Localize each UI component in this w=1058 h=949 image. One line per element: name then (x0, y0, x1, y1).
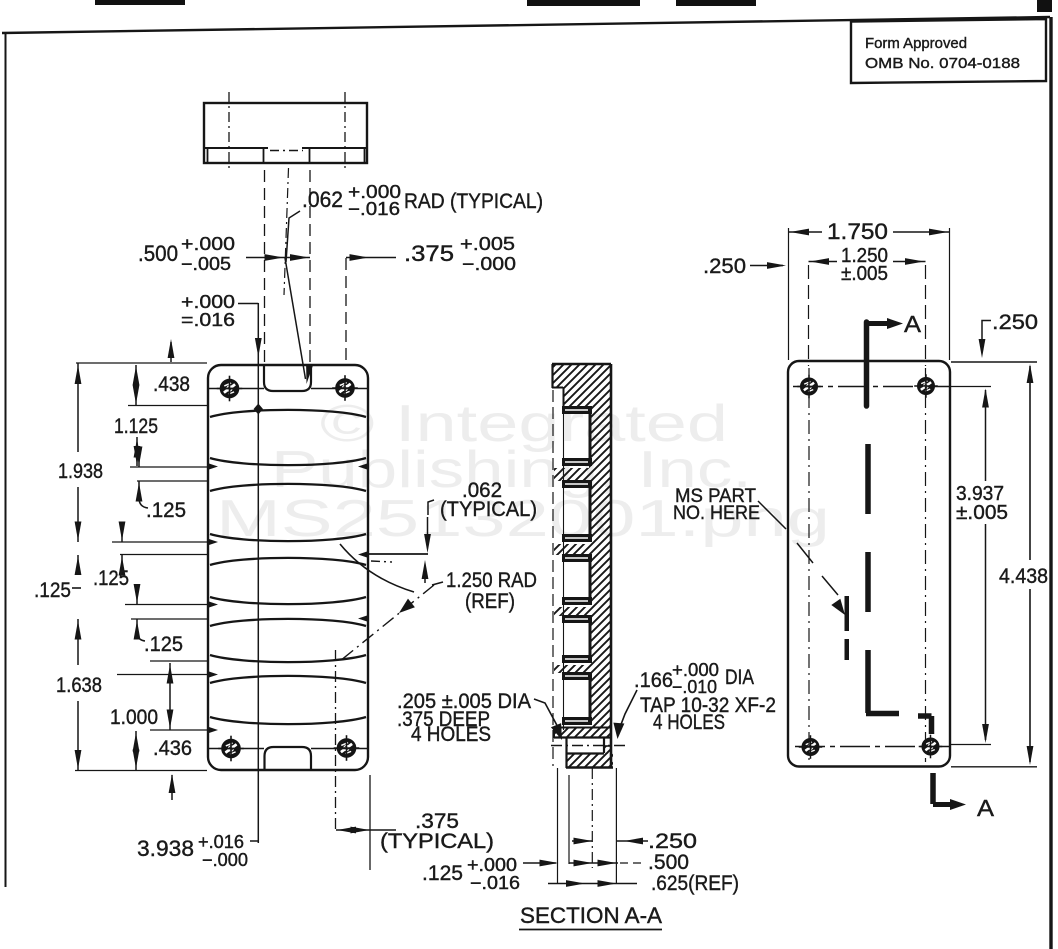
dim .500 line (246, 254, 310, 261)
front view screw bottom-left (218, 736, 244, 762)
dim 3.938 tie (250, 840, 258, 842)
stray up arrow left of view top (168, 339, 175, 362)
dim .166 tap note text (634, 660, 776, 734)
svg-text:RAD (TYPICAL): RAD (TYPICAL) (404, 190, 543, 213)
dim 1.750 (789, 219, 950, 360)
dim .500 bottom (569, 851, 689, 874)
svg-text:−.005: −.005 (181, 254, 231, 274)
section arrow A bottom (933, 773, 995, 821)
dim .062 RAD (TYPICAL) text (302, 182, 543, 219)
right view screw top-right (914, 374, 938, 398)
section foot outline (554, 727, 613, 768)
screw column line left (808, 368, 810, 760)
dim .250 left (703, 255, 786, 278)
left extension lines (75, 363, 209, 771)
dim .375 text (404, 234, 516, 274)
svg-text:1.250 RAD: 1.250 RAD (446, 569, 537, 592)
dim .625 REF bottom (548, 872, 739, 895)
dim .125 bottom text (422, 855, 520, 893)
center line extension below view (257, 770, 259, 843)
svg-text:.375: .375 (404, 241, 454, 266)
hole center extension dash-dot (591, 768, 593, 868)
svg-text:.250: .250 (648, 830, 697, 853)
leader .062 RAD to notch (285, 211, 313, 385)
svg-text:+.005: +.005 (460, 234, 515, 254)
leader 1.250 RAD (340, 582, 443, 661)
svg-text:.250: .250 (992, 311, 1038, 334)
dim 1.938 line (77, 363, 79, 542)
svg-text:.125: .125 (422, 862, 463, 885)
svg-text:Form Approved: Form Approved (865, 35, 967, 52)
section outline (552, 364, 611, 768)
dim 1.000 line (169, 663, 171, 730)
band pinch ticks left edge (209, 464, 218, 734)
leader MS part (758, 501, 850, 618)
dim .205 hole note text (397, 690, 531, 746)
svg-text:.125: .125 (93, 567, 129, 590)
svg-text:4 HOLES: 4 HOLES (411, 723, 491, 746)
dim .375 line (346, 254, 396, 261)
front view screw top-right (332, 375, 358, 401)
front view slot band 1 (210, 410, 366, 465)
below-section extension lines (558, 768, 617, 884)
dim tolerance +.000/=.016 text (181, 292, 235, 330)
svg-text:.500: .500 (138, 241, 178, 266)
section slot 5 (562, 672, 592, 725)
svg-text:.125: .125 (146, 499, 186, 522)
top view outline (204, 103, 367, 163)
short dash-dot right of view (371, 561, 392, 562)
dim .062 typical mid text (440, 479, 537, 521)
section slot 4 (562, 615, 592, 663)
svg-text:.250: .250 (703, 255, 746, 278)
svg-text:(TYPICAL): (TYPICAL) (380, 830, 494, 853)
svg-text:.125: .125 (34, 579, 71, 602)
front view screw bottom-right (334, 735, 360, 761)
right view screw bottom-left (799, 735, 823, 759)
screw row center line bottom (795, 746, 950, 748)
svg-text:A: A (977, 795, 995, 821)
extension dashed line notch right (309, 170, 311, 362)
dim .500 text (138, 234, 235, 274)
extension line right edge to bottom dim (369, 775, 371, 870)
top view center line right (344, 92, 346, 172)
MS part no mark (845, 596, 850, 660)
svg-text:+.016: +.016 (198, 832, 244, 852)
front view outline (208, 365, 368, 770)
svg-text:−.000: −.000 (462, 254, 516, 274)
svg-text:4 HOLES: 4 HOLES (653, 711, 725, 734)
MS PART NO. HERE text (673, 486, 760, 524)
dash-dot line through bottom-right screw column (335, 650, 337, 830)
svg-text:+.000: +.000 (467, 855, 517, 875)
dim 1.250 RAD (REF) text (446, 569, 537, 613)
dim 1.125 line (136, 437, 138, 466)
right view screw top-left (797, 375, 821, 399)
band pinch ticks right edge (358, 464, 367, 622)
svg-text:1.000: 1.000 (110, 706, 158, 729)
svg-text:1.125: 1.125 (114, 415, 158, 438)
dim .125 mid lines (121, 524, 123, 571)
front view bottom notch (265, 747, 312, 769)
svg-text:SECTION A-A: SECTION A-A (520, 903, 662, 928)
svg-text:=.016: =.016 (181, 310, 235, 330)
svg-text:+.000: +.000 (181, 292, 235, 312)
front view screw row line top (209, 388, 367, 390)
gap line extended right of view (368, 553, 428, 555)
svg-text:3.938: 3.938 (137, 836, 194, 861)
screw column line right (925, 368, 927, 762)
SECTION A-A title (519, 903, 662, 930)
svg-text:+.000: +.000 (181, 234, 235, 254)
svg-text:.125: .125 (144, 633, 183, 656)
sheet border right (1049, 17, 1052, 949)
extension dashed line notch left (264, 170, 266, 362)
section slot 1 (562, 406, 592, 466)
leader .166 to hole (612, 690, 637, 739)
front view top notch (264, 366, 311, 391)
slot lip seams (565, 410, 588, 721)
dim .438 top line (135, 365, 137, 405)
screw row center line top (793, 386, 950, 388)
extension dashed line screw column right (345, 258, 347, 362)
dim .250 bottom (572, 830, 697, 853)
section slot 2 (562, 480, 592, 542)
top view center line left (228, 92, 230, 172)
svg-text:NO. HERE: NO. HERE (673, 503, 760, 524)
svg-text:1.750: 1.750 (827, 219, 888, 244)
dim 3.938 text (137, 832, 248, 870)
right view screw bottom-right (919, 735, 943, 759)
dim .125 bottom arrow (523, 860, 559, 867)
svg-text:−.016: −.016 (348, 199, 400, 219)
dim .125 first lines (138, 449, 140, 500)
svg-text:±.005: ±.005 (841, 263, 888, 285)
front view slot band 3 (210, 558, 366, 604)
dim .062 typical bracket and arrows (422, 500, 434, 583)
svg-text:−.016: −.016 (470, 873, 520, 893)
extension dash-dot line view center (284, 168, 289, 295)
svg-text:4.438: 4.438 (999, 565, 1048, 588)
svg-text:±.005: ±.005 (956, 502, 1008, 524)
dim .375 typical bottom text (380, 810, 494, 853)
svg-text:(TYPICAL): (TYPICAL) (440, 498, 537, 521)
dim .250 right (979, 311, 1038, 358)
front view slot band 5 (210, 676, 366, 724)
dim .125 far-left tie dash (72, 587, 81, 589)
front view slot band 2 (210, 484, 366, 541)
section view hatched areas (552, 364, 613, 768)
svg-text:.436: .436 (153, 737, 192, 760)
stray arrow below view left (171, 775, 173, 800)
front view slot band 4 (210, 619, 366, 662)
cutting plane dashes (866, 444, 932, 734)
dim .125 outer gap arrow (77, 555, 79, 572)
svg-text:OMB No. 0704-0188: OMB No. 0704-0188 (865, 55, 1020, 72)
section slot 3 (562, 554, 592, 605)
front view screw top-left (217, 376, 243, 402)
svg-text:.625(REF): .625(REF) (651, 872, 739, 895)
svg-text:.062: .062 (302, 187, 343, 212)
sheet border left (5, 33, 7, 887)
dim 1.250 (809, 245, 926, 366)
svg-text:1.938: 1.938 (58, 460, 103, 483)
dim .125 third lines (136, 587, 138, 634)
dim 4.438 (951, 362, 1048, 767)
dim 1.638 line (77, 619, 79, 770)
stray scan marks top edge (95, 0, 1052, 12)
front view vertical center line (257, 303, 259, 770)
svg-text:(REF): (REF) (465, 590, 515, 613)
svg-text:1.638: 1.638 (56, 674, 102, 697)
tap hole center line (551, 745, 627, 747)
dim 3.937 (951, 387, 1008, 745)
right view outline (788, 361, 950, 767)
section arrow A top (867, 311, 922, 406)
form approved box (851, 19, 1046, 83)
radius reference arc (340, 544, 414, 592)
svg-text:−.000: −.000 (202, 850, 248, 870)
dim .436 line (135, 731, 137, 770)
sheet border top (2, 17, 1050, 33)
center line diamond node (254, 404, 263, 415)
svg-text:.438: .438 (153, 373, 190, 396)
svg-text:DIA: DIA (725, 666, 754, 689)
front view screw row line bottom (209, 748, 367, 750)
svg-text:A: A (904, 311, 922, 337)
leader .205 to hole (534, 699, 567, 742)
leader =.016 to notch edge (238, 304, 262, 358)
svg-text:.166: .166 (634, 669, 673, 692)
dim .375 typical bottom line (336, 829, 396, 831)
svg-text:.500: .500 (648, 851, 689, 874)
